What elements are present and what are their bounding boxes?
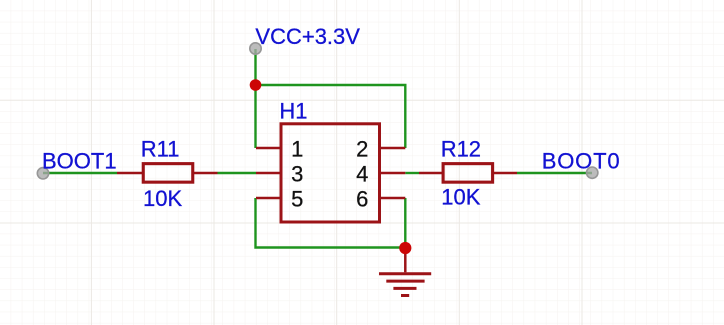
junction dot at ground node bbox=[399, 242, 411, 254]
wire R11 to H1 pin 3 bbox=[218, 172, 257, 174]
ground bar 1 bbox=[379, 272, 431, 275]
pin 6 stub bbox=[381, 197, 406, 200]
svg-text:3: 3 bbox=[291, 162, 303, 187]
svg-text:10K: 10K bbox=[441, 184, 480, 209]
ground bar 3 bbox=[393, 287, 416, 290]
svg-text:BOOT1: BOOT1 bbox=[42, 148, 117, 173]
wire VCC vertical down through junction to pin 1 bbox=[254, 49, 256, 148]
pin 2 stub bbox=[381, 147, 406, 150]
resistor R12 left lead bbox=[419, 172, 443, 175]
svg-text:6: 6 bbox=[356, 187, 368, 212]
ground stem bbox=[404, 248, 407, 272]
port pin circle VCC bbox=[250, 43, 261, 54]
svg-text:5: 5 bbox=[291, 187, 303, 212]
header H1 body bbox=[281, 124, 380, 222]
svg-text:BOOT0: BOOT0 bbox=[542, 148, 621, 173]
resistor R12 body bbox=[443, 164, 493, 183]
pin 5 stub bbox=[256, 197, 280, 200]
ground bar 2 bbox=[386, 280, 424, 283]
wire R12 to BOOT0 port bbox=[517, 172, 592, 174]
pin 3 stub bbox=[256, 172, 280, 175]
resistor R11 left lead bbox=[117, 172, 143, 175]
svg-text:1: 1 bbox=[291, 137, 303, 162]
resistor R11 body bbox=[143, 164, 193, 183]
wire VCC junction to pin 2 (top horizontal and right vertical) bbox=[256, 85, 406, 148]
ground bar 4 bbox=[401, 294, 409, 297]
svg-text:R12: R12 bbox=[441, 136, 481, 161]
svg-text:10K: 10K bbox=[143, 186, 182, 211]
pin 1 stub bbox=[256, 147, 280, 150]
port pin circle BOOT0 bbox=[587, 167, 598, 178]
resistor R11 right lead bbox=[193, 172, 218, 175]
svg-text:H1: H1 bbox=[279, 98, 307, 123]
port pin circle BOOT1 bbox=[37, 168, 48, 179]
wire H1 pin 4 to R12 bbox=[405, 172, 419, 174]
pin 4 stub bbox=[381, 172, 406, 175]
junction dot at VCC node bbox=[250, 79, 262, 91]
wire pin 5 down and across to ground junction bbox=[256, 198, 406, 248]
svg-text:4: 4 bbox=[356, 162, 368, 187]
wire pin 6 down to ground junction bbox=[404, 198, 406, 248]
svg-text:VCC+3.3V: VCC+3.3V bbox=[255, 24, 360, 49]
wire BOOT1 net: port to R11 bbox=[43, 172, 117, 174]
svg-text:R11: R11 bbox=[141, 136, 180, 161]
resistor R12 right lead bbox=[493, 172, 518, 175]
svg-text:2: 2 bbox=[356, 137, 368, 162]
